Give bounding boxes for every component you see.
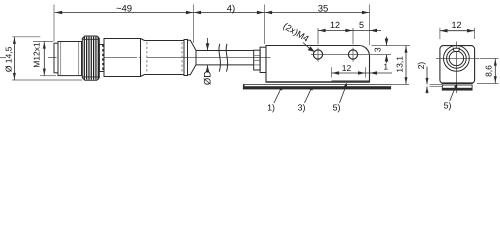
foil strip item 5 end view (442, 85, 472, 90)
hole 2 vertical tick (352, 48, 354, 62)
ext line foil lower (430, 85, 443, 87)
sensor end ring (184, 40, 188, 76)
ext line end view bottom right (477, 82, 499, 84)
dim 5 (353, 30, 381, 32)
hole centerline (311, 54, 391, 56)
mounting plate left edge (243, 84, 245, 89)
end view vertical centerline (455, 42, 457, 94)
cable gland flange (260, 47, 266, 72)
dim 1 (366, 72, 392, 74)
dim 35 (265, 12, 370, 14)
cable (196, 50, 254, 52)
hole 1 vertical tick (317, 48, 319, 62)
svg-text:3: 3 (372, 47, 382, 52)
svg-text:5): 5) (333, 103, 341, 113)
ext line foil top (430, 83, 443, 85)
tick foil right (365, 67, 367, 77)
dim M12x1 (43, 42, 45, 76)
leader item 1 (274, 88, 281, 103)
svg-text:Ø 14,5: Ø 14,5 (4, 46, 14, 72)
svg-text:13,1: 13,1 (394, 56, 404, 73)
ext ticks M12x1 (33, 41, 53, 43)
connector face plate (54, 43, 58, 73)
end view inner circle (449, 51, 463, 65)
svg-text:5: 5 (359, 20, 364, 30)
dim 3 (386, 37, 388, 46)
mounting plate top line (243, 83, 390, 85)
ext ticks end view 12 (439, 28, 441, 39)
nut chamfer line bottom (82, 76, 99, 78)
ext line block bottom right (372, 83, 410, 85)
end view outer circle (444, 46, 470, 72)
svg-text:4): 4) (227, 3, 235, 14)
svg-text:3): 3) (298, 103, 306, 113)
connector key notch (453, 48, 459, 51)
nut chamfer line top (82, 38, 99, 40)
svg-text:ØD: ØD (203, 71, 214, 85)
end view square bottom edge thick (442, 82, 474, 84)
hole 1 (2x)M4 (313, 50, 322, 59)
end view middle circle (447, 49, 467, 69)
centerline dot (139, 57, 141, 59)
svg-text:12: 12 (451, 20, 461, 30)
extension line left of connector (53, 5, 55, 42)
ext line block top right (372, 45, 411, 47)
hole 2 (2x)M4 (348, 50, 357, 59)
hidden line front of body2 (146, 42, 148, 74)
sensor body rear section (145, 41, 185, 75)
dim 12 foil (332, 72, 366, 74)
centerline dash at left edge (0, 57, 6, 59)
dim 4) (194, 12, 265, 14)
svg-text:8,6: 8,6 (484, 65, 494, 77)
hidden line rear of body2 (181, 42, 183, 74)
cable break symbol (219, 44, 221, 72)
washer serration (102, 45, 104, 72)
foil strip item 5 side view (332, 80, 370, 82)
leader item 5 right (450, 85, 456, 101)
dim 8,6 (494, 59, 496, 84)
svg-text:(2x)M4: (2x)M4 (281, 21, 310, 44)
leader item 5 left (340, 85, 347, 103)
svg-text:12: 12 (342, 63, 352, 73)
dim dia 14,5 (13, 37, 15, 80)
centerline in body front section (105, 57, 138, 59)
dim ~49 (55, 12, 194, 14)
svg-text:12: 12 (330, 20, 340, 30)
connector M12 thread barrel (58, 42, 82, 76)
block bottom edge thick (266, 81, 370, 83)
connector rear washer (99, 45, 104, 72)
sensor end cap taper (188, 40, 197, 74)
dim 13,1 (405, 46, 407, 85)
ext line end view center right (480, 58, 499, 60)
extension line at sensor end (193, 5, 195, 44)
connector knurled nut (82, 36, 99, 80)
ext ticks dia 14.5 (12, 36, 40, 38)
sensor body chamfer (141, 39, 145, 41)
svg-text:35: 35 (318, 3, 329, 14)
dim 2) foil thickness (426, 67, 428, 85)
svg-text:~49: ~49 (116, 3, 132, 14)
hole 2 extension line upper (352, 28, 354, 44)
svg-text:2): 2) (416, 62, 426, 70)
svg-text:5): 5) (444, 101, 452, 111)
mounting block body (266, 46, 370, 83)
cable gland nut (254, 50, 260, 70)
dim 12 end view (440, 30, 475, 32)
mounting plate bottom band (243, 87, 390, 89)
leader to hole 1 (303, 43, 311, 50)
leader item 3 (305, 88, 312, 103)
extension line at block left (264, 5, 266, 45)
dim dia D arrows (207, 38, 209, 50)
svg-text:M12x1: M12x1 (32, 42, 42, 68)
svg-text:1): 1) (267, 103, 275, 113)
centerline dash before connector (48, 57, 57, 59)
tick foil left (331, 67, 333, 77)
sensor body front section (104, 39, 141, 77)
svg-text:1: 1 (383, 62, 388, 72)
centerline rear solid part (147, 57, 271, 59)
extension line at block right (369, 5, 371, 46)
end view housing square (440, 46, 475, 84)
end view horizontal centerline (436, 58, 480, 60)
hole 1 extension line upper (317, 28, 319, 44)
dim 12 hole spacing (318, 30, 353, 32)
